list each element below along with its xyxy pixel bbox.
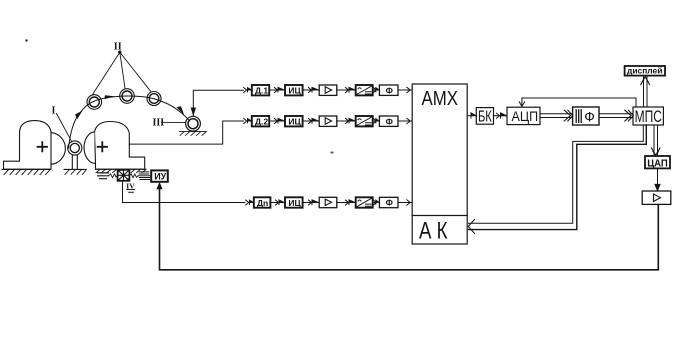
ground under right drum <box>96 169 147 172</box>
wire amp-conv row2 <box>337 118 356 123</box>
svg-text:I: I <box>52 106 56 117</box>
bus MPS to display <box>641 77 650 108</box>
roller III (on fixed mount) <box>186 116 201 131</box>
block power amplifier <box>642 191 671 204</box>
bus ADC to SHF <box>540 110 573 121</box>
spring left of mechanism <box>98 173 118 179</box>
thread arrow 3 <box>177 106 185 115</box>
svg-text:АЦП: АЦП <box>512 108 539 124</box>
wire F-AMX row3 <box>398 200 412 205</box>
wire D1-ITs <box>269 87 284 92</box>
wire conv-F row3 <box>373 200 379 205</box>
roller II-c <box>147 92 161 106</box>
label IV <box>126 182 135 191</box>
block filter F row3 <box>379 197 398 207</box>
svg-text:МПС: МПС <box>635 108 662 126</box>
svg-text:ИЦ: ИЦ <box>288 86 301 96</box>
wire ITs-amp row3 <box>303 200 319 205</box>
roller II-b <box>120 89 135 104</box>
wire mechanism to Dn row3 <box>123 181 246 203</box>
leader line label III <box>162 121 186 123</box>
svg-text:Ф: Ф <box>386 198 393 208</box>
wire F-AMX row2 <box>398 118 412 123</box>
block DAC (ЦАП) <box>645 156 670 169</box>
leader lines II <box>93 52 151 94</box>
block ADC (АЦП) <box>507 107 540 124</box>
wire roller III to row1 <box>193 90 243 116</box>
block ITs row1 <box>285 85 303 96</box>
plus mark left drum <box>38 142 47 151</box>
svg-text:ИУ: ИУ <box>154 172 166 182</box>
block D1 <box>252 85 269 96</box>
wire BK to ADC <box>494 113 507 119</box>
svg-text:Ф: Ф <box>386 85 393 95</box>
label I <box>52 106 56 117</box>
svg-text:А К: А К <box>419 218 448 245</box>
svg-text:ИЦ: ИЦ <box>288 198 301 208</box>
block AMX / AK (multiplexer + analog switch) <box>412 84 467 245</box>
wire D2-ITs <box>269 118 284 123</box>
block amplifier row3 <box>319 197 337 207</box>
stand of roller I <box>64 155 87 174</box>
block filter F row2 <box>379 116 398 126</box>
thread path (material web over rollers) <box>69 96 189 148</box>
thread arrow 2 <box>105 95 115 99</box>
arrow into D2 <box>244 119 252 124</box>
wire power amp to IU (main feedback loop) <box>157 183 658 270</box>
wire amp-conv row3 <box>337 200 356 205</box>
drum left (capstan housing) <box>4 121 66 170</box>
wire ITs-amp row2 <box>303 118 319 123</box>
wire MPS feedback to ADC <box>519 98 636 107</box>
block SHF (bus driver) <box>573 107 599 125</box>
stray dot top-left <box>25 39 27 41</box>
bus SHF to MPS <box>599 110 633 121</box>
roller II-a <box>87 95 102 110</box>
wire AMX to BK <box>467 113 476 119</box>
wire conv-F row2 <box>373 119 379 124</box>
leader dot II <box>118 51 121 54</box>
svg-text:АМХ: АМХ <box>422 87 459 110</box>
thread arrow 1 <box>75 111 82 120</box>
block BK <box>476 108 493 126</box>
block display (дисплей) <box>625 66 665 76</box>
svg-text:Д.1: Д.1 <box>255 86 268 96</box>
roller I (tension roller between drums) <box>68 141 82 155</box>
block converter AC/DC row2 <box>356 116 373 126</box>
ground under roller III <box>180 132 207 136</box>
bus MPS to AK (feedback) <box>468 125 646 233</box>
stray dash center <box>331 152 334 154</box>
block ITs row2 <box>285 116 303 127</box>
wire conv-F row1 <box>373 88 379 93</box>
svg-text:Ф: Ф <box>386 116 393 126</box>
wire amp-conv row1 <box>337 87 356 92</box>
svg-text:Дn: Дn <box>257 198 268 208</box>
spring right of mechanism <box>129 172 151 180</box>
wire Dn-ITs <box>270 200 284 205</box>
block amplifier row1 <box>319 85 337 95</box>
plus mark right drum <box>98 142 107 151</box>
block amplifier row2 <box>319 116 337 126</box>
drum right (capstan housing) <box>84 122 145 170</box>
wire ITs-amp row1 <box>303 87 319 92</box>
svg-text:Ф: Ф <box>584 108 595 124</box>
svg-text:ЦАП: ЦАП <box>647 157 668 169</box>
wire F-AMX row1 <box>398 87 412 92</box>
block filter F row1 <box>379 85 398 95</box>
block Dn <box>254 197 271 208</box>
wire drum right to D2 row2 <box>129 121 243 144</box>
ground under left drum <box>2 169 50 174</box>
block IU (actuator) <box>151 170 168 181</box>
block MPS (microprocessor system) <box>633 107 663 126</box>
wire DAC to power amp <box>655 169 660 191</box>
bus MPS to DAC <box>651 125 660 155</box>
svg-text:ИЦ: ИЦ <box>288 117 301 127</box>
label II <box>114 42 122 53</box>
leader line label I <box>57 114 72 142</box>
block D2 <box>252 116 269 127</box>
block converter AC/DC row1 <box>356 85 373 95</box>
block converter AC/DC row3 <box>356 197 373 207</box>
mechanism IV (gear unit under right drum) <box>118 170 130 181</box>
arrow into D1 <box>244 88 252 93</box>
label III <box>153 118 165 129</box>
arrow into Dn <box>246 200 254 205</box>
svg-text:III: III <box>153 118 165 129</box>
svg-text:Д.2: Д.2 <box>255 117 268 127</box>
block ITs row3 <box>285 197 303 208</box>
arrow down into roller III <box>191 108 196 117</box>
svg-text:дисплей: дисплей <box>627 67 662 76</box>
svg-text:БК: БК <box>478 109 492 126</box>
